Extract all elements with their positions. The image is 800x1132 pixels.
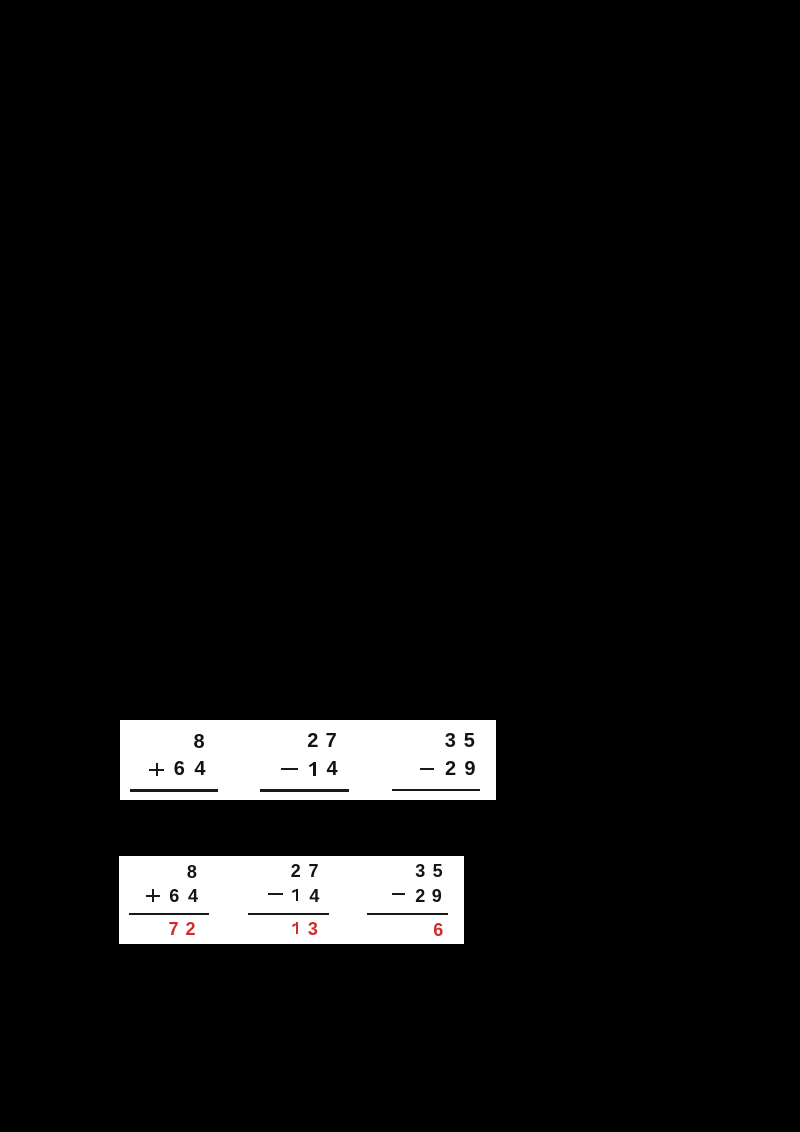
card1 problem1 plus sign vertical stroke (156, 763, 158, 776)
card1 problem3 answer rule (392, 789, 480, 792)
card2 problem1 plus sign horizontal stroke (146, 895, 160, 897)
card1 problem2 minuend digit 2 (307, 731, 318, 751)
card2 problem2 minus sign (268, 893, 283, 895)
card1 problem3 minus sign (420, 768, 435, 770)
card2 problem1 plus sign vertical stroke (152, 889, 154, 902)
card2 problem1 addend digit 4 (188, 887, 198, 905)
card1 problem1 top operand 8 (194, 732, 205, 752)
card2 problem3 answer digit 6 (red) (433, 921, 443, 939)
card2 problem1 answer digit 2 (red) (186, 920, 196, 938)
card1 problem3 subtrahend digit 2 (445, 759, 456, 779)
card2 problem2 answer digit 1 (red) (296, 922, 298, 934)
card1 problem2 minus sign (281, 768, 298, 770)
card2 problem3 answer rule (367, 913, 448, 915)
card1 problem2 answer rule (260, 789, 349, 792)
card1 problem1 addend digit 4 (194, 759, 205, 779)
card1 problem2 minuend digit 7 (326, 731, 337, 751)
card1 problem1 addend digit 6 (174, 759, 185, 779)
card1 problem3 minuend digit 3 (445, 731, 456, 751)
card2 problem2 answer digit 3 (red) (308, 920, 318, 938)
card2 problem1 answer digit 7 (red) (169, 920, 179, 938)
card1 problem2 subtrahend digit 1 (313, 762, 315, 776)
card2 problem3 minuend digit 3 (415, 862, 425, 880)
white card 2 : solved problems with red answers (119, 856, 464, 944)
card2 problem1 answer rule (129, 913, 209, 915)
card2 problem3 subtrahend digit 9 (432, 887, 442, 905)
card2 problem3 minuend digit 5 (433, 862, 443, 880)
card2 problem1 addend digit 6 (169, 887, 179, 905)
card2 problem2 minuend digit 2 (291, 862, 301, 880)
card1 problem3 minuend digit 5 (464, 731, 475, 751)
card2 problem2 subtrahend digit 4 (309, 887, 319, 905)
card2 problem3 minus sign (392, 893, 406, 895)
card2 problem2 minuend digit 7 (309, 862, 319, 880)
card1 problem1 answer rule (130, 789, 218, 792)
card2 problem2 answer rule (248, 913, 329, 915)
card1 problem1 plus sign horizontal stroke (149, 769, 164, 771)
card1 problem3 subtrahend digit 9 (464, 759, 475, 779)
card1 problem2 subtrahend digit 4 (327, 759, 338, 779)
card2 problem2 subtrahend digit 1 (296, 889, 298, 902)
card2 problem3 subtrahend digit 2 (415, 887, 425, 905)
white card 1 : unsolved problems (120, 720, 496, 800)
card2 problem1 top operand 8 (187, 863, 197, 881)
